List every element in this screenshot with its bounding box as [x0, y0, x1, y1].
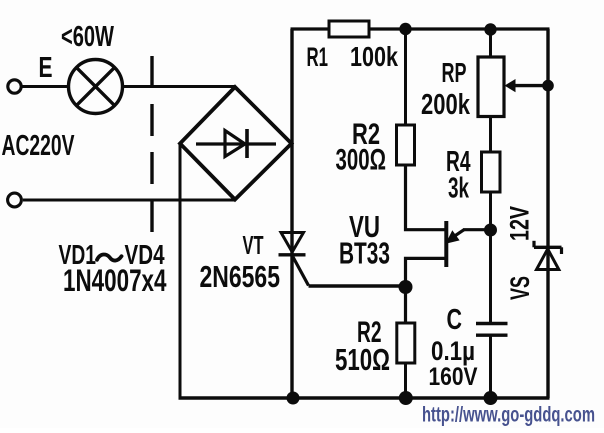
- wire from node A down to R2 300: [404, 29, 407, 125]
- wire top rail: [291, 27, 550, 30]
- capacitor C 0.1u 160V: [476, 324, 508, 336]
- wire left rail from bridge left vertex to bottom rail: [179, 144, 182, 399]
- label tilde between VD1 and VD4: [97, 254, 122, 260]
- svg-text:0.1µ: 0.1µ: [431, 336, 475, 366]
- potentiometer RP wire from node B: [489, 29, 492, 57]
- junction bottom VT cathode: [287, 392, 300, 405]
- bridge diode symbol: [196, 129, 276, 158]
- svg-text:C: C: [447, 304, 463, 336]
- wire R2 510 bottom to bottom rail: [404, 363, 407, 398]
- unijunction transistor VU BT33: [446, 221, 485, 267]
- terminal lower AC input: [8, 193, 22, 207]
- resistor R1: [329, 21, 369, 37]
- wire VT gate to node D: [309, 284, 406, 287]
- svg-text:100k: 100k: [350, 41, 398, 72]
- wire bottom rail: [179, 396, 550, 400]
- svg-text:300Ω: 300Ω: [336, 144, 387, 177]
- svg-text:2N6565: 2N6565: [200, 259, 281, 294]
- junction node C UJT base2: [484, 224, 497, 237]
- bridge rectifier VD1~VD4 diamond: [180, 87, 292, 200]
- wire capacitor bottom to bottom rail: [489, 335, 492, 398]
- svg-text:http://www.go-gddq.com: http://www.go-gddq.com: [422, 404, 595, 427]
- wire UJT lower lead to node D: [406, 258, 445, 323]
- svg-text:160V: 160V: [429, 363, 478, 391]
- svg-text:1N4007x4: 1N4007x4: [63, 262, 167, 298]
- wire lower AC to bridge bottom vertex: [23, 199, 235, 202]
- svg-text:R1: R1: [307, 42, 329, 72]
- svg-text:<60W: <60W: [61, 21, 114, 53]
- dashed separator line: [150, 56, 153, 232]
- lamp E <60W: [69, 60, 123, 114]
- svg-text:RP: RP: [442, 57, 467, 88]
- wire R4 bottom to node C: [489, 192, 492, 230]
- svg-text:AC220V: AC220V: [2, 130, 75, 162]
- svg-text:VT: VT: [243, 230, 264, 260]
- wire lamp to bridge top vertex: [124, 85, 235, 88]
- svg-text:VS: VS: [505, 276, 535, 300]
- wire terminal to lamp: [22, 85, 69, 88]
- junction bottom capacitor: [484, 391, 498, 405]
- potentiometer RP body: [478, 57, 504, 117]
- svg-text:510Ω: 510Ω: [335, 342, 390, 377]
- svg-text:3k: 3k: [448, 173, 470, 205]
- svg-text:E: E: [39, 52, 53, 84]
- wire anode rail bridge plus down through VT: [290, 29, 293, 398]
- resistor R2 510 ohm: [397, 323, 415, 363]
- junction node R1-R2: [399, 23, 411, 35]
- potentiometer RP wiper arrow: [505, 79, 549, 92]
- resistor R4: [482, 152, 501, 192]
- junction bottom R2 510: [399, 391, 413, 405]
- junction node top RP: [484, 23, 496, 35]
- wire right rail: [546, 29, 549, 398]
- resistor R2 300 ohm: [397, 125, 415, 165]
- junction node D gate: [399, 280, 413, 294]
- thyristor VT 2N6565: [279, 233, 309, 286]
- svg-text:BT33: BT33: [339, 236, 390, 271]
- zener diode VS 12V: [534, 241, 562, 270]
- wire node C down to capacitor: [489, 230, 492, 322]
- terminal upper AC input: [8, 80, 21, 93]
- junction node wiper right rail: [542, 80, 554, 92]
- svg-text:12V: 12V: [505, 206, 535, 241]
- wire R2 300 bottom to UJT upper lead: [406, 165, 445, 230]
- svg-text:200k: 200k: [421, 89, 471, 121]
- wire RP bottom to R4: [489, 117, 492, 153]
